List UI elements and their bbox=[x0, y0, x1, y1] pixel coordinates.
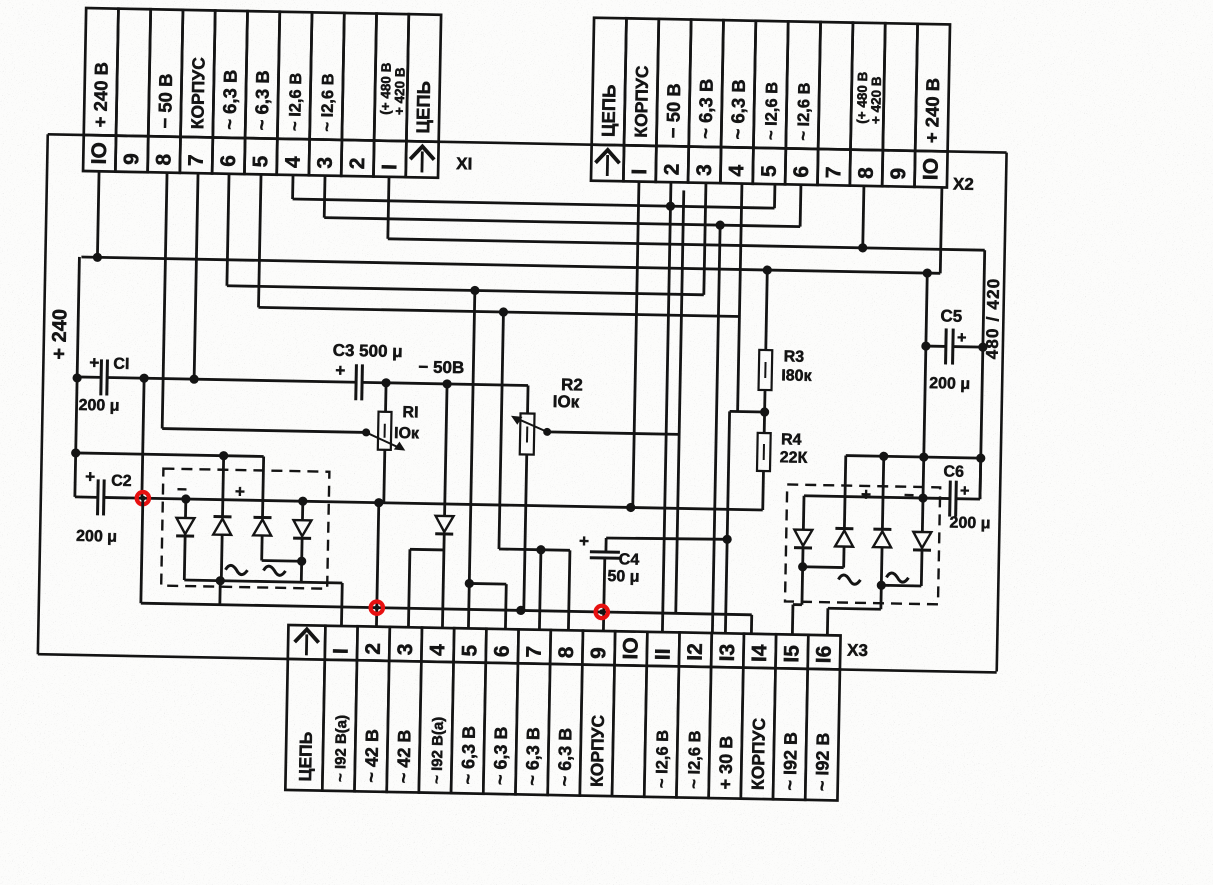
wire branch down to C2 line bbox=[142, 378, 144, 498]
node D1 top bbox=[181, 494, 190, 503]
node X1.7 end bbox=[189, 374, 198, 383]
node R1 bottom bbox=[374, 498, 383, 507]
wire main mid rail with C2 bbox=[75, 497, 763, 510]
diode VD4 bbox=[293, 520, 311, 538]
capacitor C5 bbox=[926, 328, 984, 365]
wire D8/D9 bottoms bbox=[881, 547, 922, 586]
wire D3 leads bbox=[260, 535, 263, 560]
diode VD9 bbox=[913, 532, 931, 550]
wire X2 pin1 korpus drop bbox=[633, 182, 639, 508]
node C3 right / R1 top bbox=[381, 378, 390, 387]
wire bridge plus output line bbox=[75, 453, 264, 518]
node H451 crossing bbox=[919, 452, 928, 461]
node D3/D4 bbox=[297, 557, 306, 566]
node R2 bottom to bus bbox=[516, 606, 525, 615]
node D6/D7 bbox=[798, 562, 807, 571]
node R3/R4 mid bbox=[760, 407, 769, 416]
resistor R2 (trimmer) bbox=[517, 413, 535, 610]
wire drop to X3 pin12 bbox=[712, 225, 720, 632]
wire H6 ~6,3V bus X1.5 to X2.4 bbox=[258, 174, 741, 316]
node C2 branch bbox=[139, 374, 148, 383]
node red terminal X3.9 bbox=[595, 606, 608, 619]
wire drop to C4 node then X3 pins 7,8 bbox=[497, 312, 574, 629]
wiper arrow R2 bbox=[511, 416, 552, 436]
wire ground bus above X3 bbox=[141, 498, 754, 633]
capacitor C4 bbox=[588, 537, 727, 633]
node X2.8 junction bbox=[858, 243, 867, 252]
wire D3/D4 join bbox=[261, 560, 301, 582]
wire: outer enclosure box bbox=[38, 134, 1007, 672]
capacitor C1 bbox=[101, 359, 108, 395]
diode VD8 bbox=[873, 529, 891, 547]
node D2 top tap bbox=[219, 451, 228, 460]
wiper arrow R1 bbox=[362, 428, 406, 450]
wire left vertical +240 branch bbox=[75, 257, 80, 497]
diode VD6 bbox=[794, 530, 812, 548]
wire R1-bottom drop to X3 pin2 bbox=[376, 503, 378, 626]
wire H5 ~6,3V bus X1.6 to X2.3 bbox=[227, 174, 706, 295]
wire C5 branch vertical bbox=[923, 273, 927, 498]
node X1.10 junction bbox=[93, 253, 102, 262]
wire H1 ~12,6V bus X1.4 to X2.5 bbox=[293, 175, 775, 208]
wire R2 wiper to -50 drop bbox=[547, 432, 679, 435]
label tilde 4 bbox=[886, 573, 908, 582]
diode VD5 bbox=[435, 516, 453, 534]
diode VD3 bbox=[253, 517, 271, 535]
node H6 drop bbox=[499, 307, 508, 316]
node D7 tap bbox=[879, 452, 888, 461]
diode VD2 bbox=[213, 517, 231, 535]
node D4 top bbox=[298, 497, 307, 506]
node junction H1/X2.2 bbox=[666, 201, 675, 210]
wire to X3 pin16 bbox=[827, 584, 881, 635]
wire -50 branch with diode bbox=[445, 384, 448, 516]
wire H4 +240V bus X1.10 to X2.10 bbox=[81, 171, 941, 273]
wire diode out to X3 pins 3,4 bbox=[408, 533, 444, 627]
node -50 diode tap bbox=[442, 379, 451, 388]
resistor R1 (trimmer) bbox=[377, 383, 392, 503]
node R3 top junction bbox=[763, 265, 772, 274]
node C5 right bbox=[978, 342, 987, 351]
wire D6/D7 bottoms bbox=[803, 546, 844, 568]
node plus-output tap bbox=[71, 448, 80, 457]
wire D1 leads bbox=[184, 499, 186, 580]
wire X1 pin7 KORPUS stub bbox=[194, 173, 198, 379]
node D8/D9 bbox=[877, 581, 886, 590]
scan noise overlay bbox=[0, 0, 1, 1]
wire -50V horizontal line bbox=[77, 377, 528, 414]
node red terminal at C2 bbox=[137, 492, 150, 505]
wire H2 ~12,6V bus X1.3 to X2.6 bbox=[324, 176, 801, 227]
node C5 branch junction bbox=[923, 268, 932, 277]
resistor R3 bbox=[758, 270, 774, 412]
node C4 top junction bbox=[722, 535, 731, 544]
wire right bridge top rail bbox=[803, 496, 923, 532]
label tilde 3 bbox=[838, 575, 860, 584]
capacitor C2 bbox=[98, 479, 105, 515]
node D1/D2 bottom bbox=[216, 576, 225, 585]
wire D4 leads bbox=[302, 501, 303, 561]
resistor R4 bbox=[756, 412, 771, 510]
node H451 right bbox=[976, 453, 985, 462]
wire X2 pin2 drop to X3 pin11 bbox=[662, 182, 671, 631]
wire H3 +480/420V bus X1.1 to X2.8 bbox=[388, 177, 986, 250]
wire to X3 pin15 bbox=[792, 567, 802, 634]
node C6 left / rail bbox=[918, 493, 927, 502]
wire bridge bottom rail to X3 pin1 bbox=[183, 580, 342, 625]
wire H451 right bridge plus line bbox=[844, 456, 980, 532]
wire X2 pin8 stub bbox=[863, 186, 864, 248]
wire 480/420 drop on right bbox=[980, 250, 985, 499]
wire X2 pin4 stub down to R3/R4 tap bbox=[738, 184, 742, 412]
capacitor C6 bbox=[923, 457, 981, 517]
wire X2.2-side vertical bbox=[676, 190, 684, 613]
node X2.1 korpus end bbox=[626, 503, 635, 512]
label tilde 2 bbox=[263, 566, 285, 575]
connector X2 bbox=[591, 18, 950, 188]
wire X1 pin8 -50V to R1 wiper bbox=[162, 173, 371, 433]
label tilde 1 bbox=[225, 565, 247, 574]
wire R3/R4 tap to X3 pin13 bbox=[725, 411, 764, 633]
node p5/p6 split bbox=[465, 579, 474, 588]
wire D2 leads bbox=[220, 535, 224, 581]
connector X3 bbox=[285, 625, 840, 800]
node junction H2 drop bbox=[715, 220, 724, 229]
connector X1 bbox=[83, 8, 441, 178]
diode VD1 bbox=[176, 518, 194, 536]
dashed box left rectifier bbox=[161, 469, 329, 589]
diode VD7 bbox=[835, 528, 853, 546]
node C1 tap bbox=[72, 373, 81, 382]
wire bottom rail to ground bus bbox=[218, 581, 221, 605]
dashed box right rectifier bbox=[785, 484, 940, 604]
node C4-left split bbox=[536, 545, 545, 554]
capacitor C3 bbox=[356, 364, 363, 400]
wire X1 pin10 stub bbox=[97, 171, 99, 257]
node H5 drop bbox=[470, 286, 479, 295]
node C5 left bbox=[921, 341, 930, 350]
node red terminal X3.2 bbox=[370, 601, 383, 614]
wire drop to X3 pins 5,6 bbox=[468, 290, 511, 628]
